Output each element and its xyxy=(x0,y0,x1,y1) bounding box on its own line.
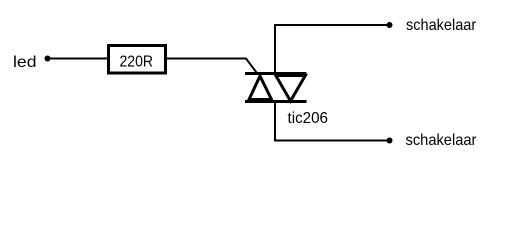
resistor R1 box xyxy=(109,46,166,74)
wire bottom rail to schakelaar xyxy=(274,140,389,142)
wire top rail to schakelaar xyxy=(274,24,389,26)
triac U1 left triangle xyxy=(249,76,272,100)
wire triac MT2 up xyxy=(274,25,276,73)
triac U1 bottom bar (MT1 side) xyxy=(245,100,307,103)
svg-text:led: led xyxy=(13,54,37,71)
node schakelaar bottom terminal xyxy=(387,138,393,144)
triac U1 top bar (MT2 side) xyxy=(245,72,307,75)
wire led to resistor R1 xyxy=(48,58,108,60)
triac U1 right triangle xyxy=(276,76,306,102)
svg-text:schakelaar: schakelaar xyxy=(406,17,477,34)
node schakelaar top terminal xyxy=(387,22,393,28)
svg-text:schakelaar: schakelaar xyxy=(406,132,478,149)
wire resistor R1 to triac gate xyxy=(166,59,257,73)
wire triac MT1 down xyxy=(274,103,276,142)
node led terminal xyxy=(45,56,51,62)
svg-text:220R: 220R xyxy=(120,54,154,71)
svg-text:tic206: tic206 xyxy=(288,110,329,127)
